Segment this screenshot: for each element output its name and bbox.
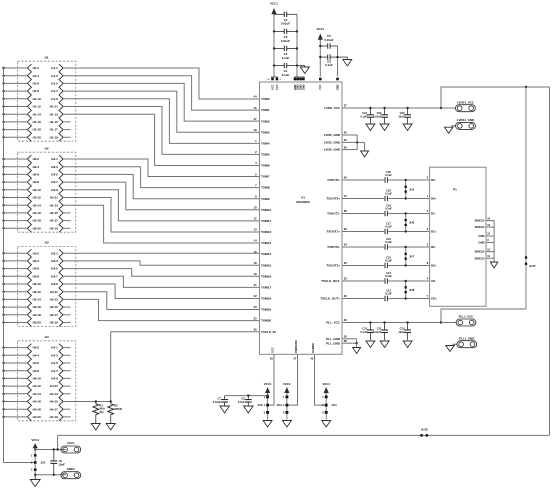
resistor R1 49.9 ohm [93, 402, 105, 424]
wire VCC1 node [35, 449, 66, 451]
svg-text:C23: C23 [400, 111, 405, 115]
wire H3-13 to TXIN20 [63, 299, 259, 320]
svg-text:0.1uF: 0.1uF [385, 225, 392, 229]
capacitor C6 0.1uF [320, 54, 337, 67]
capacitor C9 10uF [50, 450, 65, 475]
svg-text:MAX9209: MAX9209 [296, 200, 310, 204]
capacitor C2 0.1uF [274, 46, 297, 60]
svg-text:23: 23 [254, 305, 257, 309]
svg-text:PLL_VCC: PLL_VCC [326, 321, 341, 325]
wire H3-9 to TXIN18 [63, 284, 259, 298]
resistor R2 OPEN [108, 402, 122, 424]
header H4 [2, 335, 76, 421]
wire H3-1 to TXIN14 [63, 252, 259, 254]
svg-text:H2-17: H2-17 [50, 219, 59, 223]
ground (JU3) [282, 421, 291, 428]
svg-text:H3-11: H3-11 [50, 290, 58, 294]
capacitor C5 0.01uF [320, 34, 337, 49]
wire H2-11 to TXIN12 [63, 198, 259, 232]
stub H1-17 [63, 129, 71, 131]
svg-text:41: 41 [344, 194, 347, 198]
ground (C10) [403, 341, 412, 348]
svg-text:LVDS1_GND: LVDS1_GND [457, 118, 474, 122]
wire DCB/NC to JU4 [315, 354, 325, 405]
test point LVDS1_VCC [441, 107, 456, 109]
svg-text:TXIN9: TXIN9 [261, 197, 270, 201]
svg-text:28: 28 [344, 339, 347, 343]
svg-text:0.01uF: 0.01uF [281, 22, 290, 26]
wire PLL_VCC rail [342, 309, 526, 323]
svg-text:C18: C18 [386, 203, 391, 207]
stub H3-17 [63, 314, 71, 316]
svg-text:H4-17: H4-17 [50, 407, 59, 411]
svg-text:H1-12: H1-12 [33, 105, 42, 109]
jumper JU8 [405, 280, 415, 300]
ground (C12) [366, 341, 375, 348]
svg-text:TXOUT0-: TXOUT0- [327, 178, 340, 182]
svg-text:H1-9: H1-9 [51, 97, 58, 101]
svg-text:TXIN19: TXIN19 [261, 308, 272, 312]
svg-text:H1-14: H1-14 [33, 112, 42, 116]
svg-text:GND: GND [301, 84, 305, 90]
wire H3-7 to TXIN17 [63, 276, 259, 287]
svg-text:22: 22 [254, 294, 257, 298]
svg-text:36: 36 [344, 145, 347, 149]
wire PLL_GND to ground [342, 338, 357, 340]
svg-text:LVDS_GND: LVDS_GND [324, 141, 341, 145]
header H2 [2, 146, 76, 232]
svg-text:SHIELD: SHIELD [475, 250, 485, 254]
svg-text:TXIN12: TXIN12 [261, 230, 272, 234]
svg-text:PLL1_VCC: PLL1_VCC [459, 315, 475, 319]
svg-text:29: 29 [344, 318, 347, 322]
wire H2-13 to TXIN13 [63, 205, 259, 243]
jumper JU18 [420, 428, 428, 437]
svg-text:0.1uF: 0.1uF [282, 56, 290, 60]
svg-text:H4-20: H4-20 [33, 415, 42, 419]
svg-text:TXIN13: TXIN13 [261, 241, 272, 245]
svg-text:H2-15: H2-15 [50, 211, 59, 215]
ground (R2) [106, 424, 115, 431]
svg-text:35: 35 [344, 261, 347, 265]
wire C5/C6 rails [319, 40, 321, 77]
stub H4-9 [63, 377, 71, 379]
svg-text:C8: C8 [241, 397, 245, 401]
svg-text:GND: GND [479, 234, 485, 238]
svg-text:10uF: 10uF [59, 462, 66, 466]
header H1 [2, 55, 76, 141]
capacitor C17 0.1uF [385, 221, 392, 234]
svg-text:H4-3: H4-3 [51, 353, 58, 357]
op IC U1 MAX9209 [260, 82, 343, 354]
svg-text:C14: C14 [386, 271, 391, 275]
svg-text:13: 13 [254, 228, 257, 232]
svg-text:C10: C10 [400, 327, 405, 331]
stub H4-5 [63, 362, 71, 364]
svg-text:OPEN: OPEN [114, 407, 122, 411]
svg-text:JU1: JU1 [40, 461, 46, 465]
svg-text:PLL1_GND: PLL1_GND [459, 336, 474, 340]
svg-text:TXIN3: TXIN3 [261, 130, 270, 134]
svg-text:H3-19: H3-19 [50, 321, 59, 325]
svg-text:H2-12: H2-12 [33, 196, 42, 200]
svg-text:VCC1: VCC1 [264, 382, 272, 386]
ground (LVDS1_GND) [451, 125, 455, 127]
svg-text:U1: U1 [301, 195, 305, 199]
wire GND node [35, 474, 66, 476]
wire TXOUT row 7 [342, 298, 384, 300]
svg-text:VCC1: VCC1 [270, 2, 278, 6]
svg-text:H3-5: H3-5 [51, 267, 58, 271]
svg-text:0.01uF: 0.01uF [213, 400, 222, 404]
svg-text:TXIN11: TXIN11 [261, 219, 271, 223]
svg-text:H2-20: H2-20 [33, 226, 42, 230]
svg-text:PLL_GND: PLL_GND [326, 341, 341, 345]
ground (JU2) [263, 421, 272, 428]
svg-text:45: 45 [254, 106, 257, 110]
svg-text:44: 44 [254, 95, 257, 99]
jumper JU5 [405, 179, 415, 200]
svg-text:H2-2: H2-2 [33, 157, 40, 161]
svg-text:VCC1: VCC1 [283, 382, 291, 386]
svg-text:VCC: VCC [318, 84, 322, 90]
svg-text:CK-: CK- [431, 279, 436, 283]
test point VCC1 [61, 441, 81, 453]
wire H3-5 to TXIN16 [63, 269, 259, 277]
capacitor C10 10uF [398, 323, 411, 341]
wire H1-5 to TXIN2 [63, 83, 259, 121]
node VCC pins (IC top, group 1) [271, 76, 278, 78]
svg-text:TXIN8: TXIN8 [261, 186, 270, 190]
svg-text:R2: R2 [114, 404, 118, 408]
svg-text:H3-15: H3-15 [50, 305, 59, 309]
svg-text:19: 19 [254, 272, 257, 276]
ground (PLL_GND) [353, 348, 361, 354]
wire TXOUT row 1 [342, 198, 384, 200]
svg-text:3: 3 [280, 79, 281, 81]
capacitor C23 10uF [398, 108, 411, 124]
svg-text:H2-16: H2-16 [33, 211, 42, 215]
ground (C7) [220, 406, 230, 413]
wire TXOUT row 3 [342, 231, 384, 233]
capacitor C3 0.01uF [274, 29, 297, 43]
svg-text:C11: C11 [377, 327, 382, 331]
svg-text:H2-1: H2-1 [51, 157, 58, 161]
wire H2-3 to TXIN8 [63, 167, 259, 188]
svg-text:H2-3: H2-3 [51, 165, 58, 169]
svg-text:H3: H3 [45, 241, 49, 245]
stub H1-19 [63, 136, 71, 138]
wire VCC to JU2 [269, 354, 274, 405]
capacitor C4 0.01uF [274, 12, 297, 26]
svg-text:H2-19: H2-19 [50, 226, 59, 230]
jumper JU4 [322, 382, 337, 420]
svg-text:H1: H1 [45, 55, 49, 59]
svg-text:21: 21 [254, 283, 257, 287]
svg-text:H2: H2 [45, 146, 49, 150]
svg-text:37: 37 [344, 104, 347, 108]
svg-text:H1-19: H1-19 [50, 135, 59, 139]
svg-text:H1-2: H1-2 [33, 66, 40, 70]
ground (C5/C6) [338, 56, 348, 58]
wire H3-3 to TXIN15 [63, 261, 259, 265]
wire H1-9 to TXIN4 [63, 99, 259, 144]
svg-text:H4-4: H4-4 [33, 353, 40, 357]
capacitor C15 0.1uF [385, 255, 392, 268]
svg-text:H2-18: H2-18 [33, 219, 42, 223]
svg-text:VCC1: VCC1 [322, 382, 330, 386]
wire bottom rail [58, 434, 550, 436]
svg-text:TXIN4: TXIN4 [261, 141, 270, 145]
svg-text:H1-6: H1-6 [33, 82, 40, 86]
svg-text:TXOUT2-: TXOUT2- [327, 245, 340, 249]
wire H2-1 to TXIN7 [63, 159, 259, 177]
svg-text:10: 10 [254, 206, 257, 210]
svg-text:H4-16: H4-16 [33, 400, 42, 404]
wire TXOUT row 4 [342, 246, 384, 248]
wire H4-15 to TXCLK_IN [63, 332, 259, 402]
svg-text:C7: C7 [218, 397, 222, 401]
svg-text:H3-2: H3-2 [33, 251, 40, 255]
wire right edge rail [549, 87, 551, 435]
svg-text:JU17: JU17 [529, 264, 536, 268]
svg-text:TXIN7: TXIN7 [261, 175, 270, 179]
jumper JU6 [405, 212, 415, 232]
svg-text:C19: C19 [386, 188, 391, 192]
svg-text:H4-9: H4-9 [51, 377, 58, 381]
svg-text:TXOUT1-: TXOUT1- [327, 212, 340, 216]
svg-text:30: 30 [344, 335, 347, 339]
stub H1-15 [63, 121, 71, 123]
stub H4-13 [63, 393, 71, 395]
svg-text:H1-5: H1-5 [51, 82, 58, 86]
svg-text:D2+: D2+ [431, 264, 437, 268]
svg-text:LVDS1_VCC: LVDS1_VCC [457, 100, 475, 104]
svg-text:SHIELD: SHIELD [475, 219, 485, 223]
capacitor C1 0.1uF [274, 63, 297, 77]
header H3 [2, 241, 76, 327]
svg-text:H4-2: H4-2 [33, 346, 40, 350]
svg-text:VCC: VCC [275, 84, 279, 90]
wire TXOUT row 0 [342, 179, 384, 181]
svg-text:46: 46 [267, 78, 269, 81]
capacitor C19 0.1uF [385, 188, 392, 201]
svg-text:H3-13: H3-13 [50, 298, 59, 302]
svg-text:16: 16 [254, 250, 257, 254]
svg-text:H4-12: H4-12 [33, 384, 42, 388]
jumper JU17 [525, 87, 536, 309]
svg-text:LVDS_VCC: LVDS_VCC [324, 106, 341, 110]
svg-text:H4-6: H4-6 [33, 361, 40, 365]
svg-text:H3-7: H3-7 [51, 274, 58, 278]
svg-text:0.01uF: 0.01uF [324, 38, 333, 42]
svg-text:0.01uF: 0.01uF [373, 330, 382, 334]
test point PLL1_GND [457, 336, 477, 347]
svg-text:H1-3: H1-3 [51, 74, 58, 78]
ground (C22) [380, 124, 389, 131]
svg-text:0.1uF: 0.1uF [282, 73, 290, 77]
test point GND1 [61, 467, 81, 479]
wire PWRDWN to JU3 [288, 354, 297, 405]
svg-text:JU3: JU3 [277, 403, 283, 407]
wire H2-5 to TXIN9 [63, 174, 259, 198]
stub H4-17 [63, 408, 71, 410]
svg-text:H4-8: H4-8 [33, 369, 40, 373]
svg-text:H4-7: H4-7 [51, 369, 58, 373]
svg-text:H2-13: H2-13 [50, 203, 59, 207]
svg-text:TXIN17: TXIN17 [261, 285, 272, 289]
wire LVDS_GND to ground [342, 134, 357, 136]
svg-text:C15: C15 [386, 255, 391, 259]
svg-text:H4-1: H4-1 [51, 346, 58, 350]
svg-text:39: 39 [344, 227, 347, 231]
stub H2-19 [63, 227, 71, 229]
stub H2-15 [63, 212, 71, 214]
ground (LVDS_GND) [361, 151, 369, 157]
svg-text:LVDS_GND: LVDS_GND [324, 148, 341, 152]
svg-text:H3-8: H3-8 [33, 274, 40, 278]
svg-text:SHIELD: SHIELD [475, 256, 485, 260]
svg-text:H4-5: H4-5 [51, 361, 58, 365]
svg-text:TXCLK_OUT+: TXCLK_OUT+ [320, 297, 340, 301]
svg-text:0.1uF: 0.1uF [385, 259, 392, 263]
ground bus wire (left) [3, 68, 5, 463]
svg-text:0.1uF: 0.1uF [385, 173, 392, 177]
svg-text:0.1uF: 0.1uF [325, 63, 333, 67]
svg-text:VCC: VCC [270, 84, 274, 90]
svg-text:D0-: D0- [431, 178, 436, 182]
svg-text:H3-9: H3-9 [51, 282, 58, 286]
stub H4-11 [63, 385, 71, 387]
svg-text:H4-11: H4-11 [50, 384, 58, 388]
svg-text:H1-15: H1-15 [50, 120, 59, 124]
ground (C8) [244, 406, 254, 413]
svg-text:GND1: GND1 [67, 467, 75, 471]
svg-text:0.1uF: 0.1uF [360, 115, 367, 119]
svg-text:0.1uF: 0.1uF [385, 192, 392, 196]
svg-text:JU18: JU18 [421, 428, 428, 432]
svg-text:TXCLK_IN: TXCLK_IN [261, 330, 276, 334]
svg-text:H2-14: H2-14 [33, 203, 42, 207]
ground (cap bank C1-C4) [297, 65, 305, 67]
stub H3-19 [63, 322, 71, 324]
capacitor C21 0.1uF [360, 108, 373, 124]
svg-text:D2-: D2- [431, 245, 436, 249]
svg-text:H3-10: H3-10 [33, 282, 42, 286]
svg-text:14: 14 [254, 239, 257, 243]
svg-text:H1-8: H1-8 [33, 89, 40, 93]
svg-text:47: 47 [254, 117, 257, 121]
svg-text:H2-9: H2-9 [51, 188, 58, 192]
svg-text:VCC1: VCC1 [67, 441, 75, 445]
svg-text:TXOUT2+: TXOUT2+ [326, 264, 340, 268]
svg-text:0.1uF: 0.1uF [385, 207, 392, 211]
svg-text:PWRDWN: PWRDWN [294, 340, 298, 352]
wire cap bank rails [273, 14, 275, 76]
svg-text:C9: C9 [59, 459, 63, 463]
svg-text:43: 43 [344, 131, 347, 135]
svg-text:H4-13: H4-13 [50, 392, 59, 396]
svg-text:H3-12: H3-12 [33, 290, 42, 294]
svg-text:DCB/NC: DCB/NC [311, 343, 315, 353]
test point LVDS1_GND [456, 118, 476, 129]
svg-text:OH: OH [99, 410, 103, 414]
svg-text:H1-1: H1-1 [51, 66, 58, 70]
wire TXOUT row 5 [342, 265, 384, 267]
svg-text:H2-4: H2-4 [33, 165, 40, 169]
connector P1 [430, 167, 486, 306]
stub H4-7 [63, 370, 71, 372]
svg-text:0.1uF: 0.1uF [385, 240, 392, 244]
svg-text:JU7: JU7 [409, 254, 415, 258]
svg-text:TXOUT0+: TXOUT0+ [326, 197, 340, 201]
svg-text:D1-: D1- [431, 212, 436, 216]
capacitor C18 0.1uF [385, 203, 392, 216]
svg-text:GND: GND [479, 241, 485, 245]
svg-text:H2-5: H2-5 [51, 173, 58, 177]
svg-text:C12: C12 [362, 327, 367, 331]
svg-text:10uF: 10uF [398, 115, 404, 119]
svg-text:TXIN1: TXIN1 [261, 108, 270, 112]
jumper JU3 [277, 382, 292, 420]
svg-text:40: 40 [344, 176, 347, 180]
svg-text:P1: P1 [453, 188, 457, 192]
svg-text:H3-4: H3-4 [33, 259, 40, 263]
svg-text:TXIN14: TXIN14 [261, 252, 272, 256]
test point PLL1_VCC [441, 322, 456, 324]
svg-text:TXCLK_OUT-: TXCLK_OUT- [321, 279, 340, 283]
wire H2-9 to TXIN11 [63, 190, 259, 221]
svg-text:0.1uF: 0.1uF [238, 400, 245, 404]
svg-text:H4-10: H4-10 [33, 377, 42, 381]
svg-text:48: 48 [254, 128, 257, 132]
svg-text:0.1uF: 0.1uF [385, 292, 392, 296]
ground (JU1) [34, 475, 36, 480]
ground (C11) [380, 341, 389, 348]
svg-text:H1-10: H1-10 [33, 97, 42, 101]
svg-text:LVDS_GND: LVDS_GND [324, 133, 341, 137]
node GND pin (IC top, group 4) [336, 78, 339, 81]
stub H4-19 [63, 416, 71, 418]
wire SHIELD/GND stubs (P1) [486, 220, 494, 222]
svg-text:H1-16: H1-16 [33, 120, 42, 124]
svg-text:10uF: 10uF [398, 330, 404, 334]
svg-text:H3-17: H3-17 [50, 313, 59, 317]
wire H1-7 to TXIN3 [63, 91, 259, 132]
svg-text:H1-17: H1-17 [50, 128, 59, 132]
svg-text:TXIN0: TXIN0 [261, 97, 270, 101]
svg-text:TXIN18: TXIN18 [261, 297, 272, 301]
svg-text:H1-7: H1-7 [51, 89, 58, 93]
svg-text:38: 38 [344, 209, 347, 213]
svg-text:H1-4: H1-4 [33, 74, 40, 78]
svg-text:JU5: JU5 [409, 187, 415, 191]
svg-text:H4-14: H4-14 [33, 392, 42, 396]
svg-text:JU8: JU8 [409, 288, 415, 292]
node VCC pin (IC top, group 3) [319, 78, 322, 81]
svg-text:42: 42 [344, 138, 347, 142]
svg-text:TXIN10: TXIN10 [261, 208, 272, 212]
svg-text:TXIN16: TXIN16 [261, 274, 272, 278]
ground (C23) [403, 124, 412, 131]
svg-text:H3-18: H3-18 [33, 313, 42, 317]
svg-text:TXIN5: TXIN5 [261, 153, 270, 157]
svg-text:18: 18 [254, 261, 257, 265]
wire C7/C8 to JU2 [225, 395, 268, 397]
svg-text:H3-1: H3-1 [51, 251, 58, 255]
wire H3-11 to TXIN19 [63, 292, 259, 310]
svg-text:JU4: JU4 [331, 403, 337, 407]
